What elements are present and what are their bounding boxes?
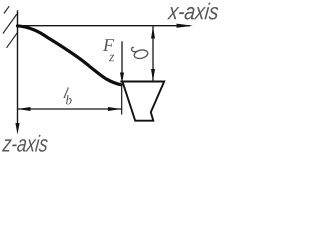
lb label l: [63, 88, 69, 98]
x-axis label: [167, 3, 218, 20]
force label subscript z: [109, 55, 114, 61]
wall hatch stroke 2: [3, 14, 17, 34]
lb right extension line: [121, 85, 123, 115]
lb dimension left arrowhead: [18, 107, 31, 111]
x-axis arrowhead: [177, 24, 194, 28]
z-axis arrowhead: [15, 123, 19, 135]
force Fz arrowhead: [120, 73, 124, 84]
force label F: [103, 39, 114, 51]
delta dimension top arrowhead: [151, 26, 155, 38]
delta dimension line: [152, 26, 154, 81]
lb label subscript b: [66, 95, 72, 104]
delta dimension bottom arrowhead: [151, 69, 155, 81]
z-axis label: [2, 135, 48, 152]
wall hatch stroke 1 (short, top-left): [4, 6, 9, 13]
deflected beam thick curve: [18, 26, 122, 85]
force Fz arrow shaft: [121, 41, 123, 76]
x-axis line: [18, 25, 191, 27]
grinding wheel trapezoid outline: [120, 82, 164, 121]
lb dimension line: [18, 108, 122, 110]
fixed wall vertical line (also z-axis shaft): [17, 10, 19, 125]
wall hatch stroke 3: [7, 33, 18, 48]
lb dimension right arrowhead: [108, 107, 121, 111]
delta label (rotated): [132, 47, 149, 59]
